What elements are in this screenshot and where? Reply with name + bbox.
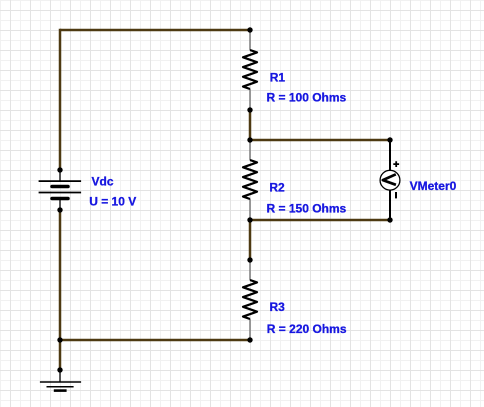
wire left vertical upper bbox=[59, 29, 62, 170]
wire top horizontal (node +) bbox=[60, 29, 250, 32]
wire R2-R3 link bbox=[249, 220, 252, 260]
svg-text:R2: R2 bbox=[269, 180, 285, 194]
junction voltmeter - pin bbox=[387, 217, 392, 222]
junction ground pin bbox=[57, 367, 62, 372]
junction R3 bottom pin bbox=[247, 337, 252, 342]
ground bbox=[40, 370, 81, 391]
wire bottom horizontal bbox=[60, 339, 250, 342]
junction R1 bottom pin bbox=[247, 107, 252, 112]
junction R1 top pin bbox=[247, 27, 252, 32]
resistor R1 bbox=[243, 30, 257, 110]
junction R3 top pin bbox=[247, 257, 252, 262]
wire node C horizontal to voltmeter bbox=[250, 219, 390, 222]
junction battery + pin bbox=[57, 167, 62, 172]
wire left vertical lower bbox=[59, 210, 62, 340]
svg-text:VMeter0: VMeter0 bbox=[410, 179, 457, 193]
junction ground node bbox=[57, 337, 62, 342]
wire node B horizontal to voltmeter bbox=[250, 139, 390, 142]
svg-text:R = 220 Ohms: R = 220 Ohms bbox=[267, 322, 347, 336]
svg-text:R = 150 Ohms: R = 150 Ohms bbox=[267, 202, 347, 216]
wire ground stub bbox=[59, 340, 62, 370]
svg-text:R1: R1 bbox=[270, 70, 286, 84]
svg-text:R = 100 Ohms: R = 100 Ohms bbox=[267, 91, 347, 105]
resistor R2 bbox=[243, 140, 257, 220]
wire R1-R2 link bbox=[249, 110, 252, 140]
voltmeter VMeter0 bbox=[380, 140, 400, 220]
junction node C (R2 bottom) bbox=[247, 217, 252, 222]
junction voltmeter + pin bbox=[387, 137, 392, 142]
svg-text:Vdc: Vdc bbox=[92, 174, 114, 188]
junction node B (R2 top) bbox=[247, 137, 252, 142]
battery Vdc bbox=[39, 170, 82, 210]
svg-text:U = 10 V: U = 10 V bbox=[89, 195, 136, 209]
resistor R3 bbox=[243, 260, 257, 340]
svg-text:R3: R3 bbox=[270, 300, 286, 314]
junction battery - pin bbox=[57, 207, 62, 212]
